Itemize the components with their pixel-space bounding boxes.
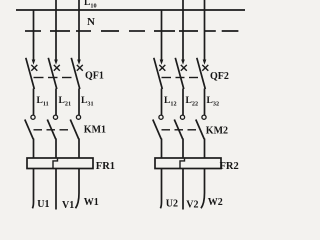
wire: FR2 to motor terminal W2 <box>201 169 205 209</box>
thermal overload relay FR2 (box with heater jog) <box>155 158 221 169</box>
svg-text:N: N <box>87 16 95 28</box>
svg-text:W1: W1 <box>84 197 99 208</box>
circuit breaker QF1 pole 3 (arrow, x contact, blade) <box>71 58 83 89</box>
wire: KM2 pole3 to FR2 <box>204 139 206 159</box>
QF2 linkage (dashed) <box>162 77 199 79</box>
bus N (neutral, dashed) <box>25 30 238 32</box>
circuit breaker QF2 pole 3 (arrow, x contact, blade) <box>197 58 209 89</box>
circuit breaker QF1 pole 2 (arrow, x contact, blade) <box>48 58 60 89</box>
svg-text:U1: U1 <box>37 199 49 210</box>
wire: L10 tap down to QF2 pole 1 <box>161 10 163 61</box>
KM2 linkage (dashed) <box>162 129 197 131</box>
svg-text:V1: V1 <box>62 200 74 210</box>
svg-text:FR2: FR2 <box>220 161 239 172</box>
wire: QF2 pole1 to KM2 pole1 <box>161 89 163 116</box>
contactor KM2 pole 1 (terminal circle, blade) <box>153 115 163 139</box>
wire: L10 tap down to QF1 pole 1 <box>33 10 35 61</box>
circuit breaker QF1 pole 1 (arrow, x contact, blade) <box>26 58 38 89</box>
wire: phase feed down to QF2 pole 3 <box>204 0 206 61</box>
wire: phase feed down to QF2 pole 2 <box>182 0 184 61</box>
KM1 linkage (dashed) <box>34 129 69 131</box>
circuit breaker QF2 pole 2 (arrow, x contact, blade) <box>175 58 187 89</box>
wire: QF1 pole1 to KM1 pole1 <box>33 89 35 116</box>
wire: phase feed down to QF1 pole 2 <box>55 0 57 61</box>
wire: QF1 pole3 to KM1 pole3 <box>78 89 80 116</box>
thermal overload relay FR1 (box with heater jog) <box>27 158 93 169</box>
wire: QF1 pole2 to KM1 pole2 <box>55 89 57 116</box>
svg-text:KM2: KM2 <box>206 125 228 136</box>
wire: FR1 to motor terminal W1 <box>76 169 80 209</box>
bus L10 <box>16 9 245 11</box>
svg-text:KM1: KM1 <box>84 124 106 135</box>
wire: KM2 pole2 to FR2 <box>182 139 184 159</box>
svg-text:W2: W2 <box>208 197 223 208</box>
wire: KM1 pole3 to FR1 <box>78 139 80 159</box>
circuit breaker QF2 pole 1 (arrow, x contact, blade) <box>154 58 166 89</box>
wire: FR1 to motor terminal U1 <box>32 169 33 209</box>
wire: FR1 to motor terminal V1 <box>55 169 57 210</box>
QF1 linkage (dashed) <box>34 77 72 79</box>
svg-text:U2: U2 <box>166 198 178 209</box>
contactor KM1 pole 3 (terminal circle, blade) <box>70 115 80 139</box>
contactor KM1 pole 2 (terminal circle, blade) <box>47 115 57 139</box>
wire: KM2 pole1 to FR2 <box>161 139 163 159</box>
wire: phase feed down to QF1 pole 3 <box>78 0 80 61</box>
svg-text:QF2: QF2 <box>210 71 229 82</box>
wire: FR2 to motor terminal U2 <box>160 169 161 209</box>
wire: KM1 pole2 to FR1 <box>55 139 57 159</box>
svg-text:FR1: FR1 <box>96 161 115 172</box>
wire: QF2 pole3 to KM2 pole3 <box>204 89 206 116</box>
svg-text:V2: V2 <box>186 199 198 210</box>
svg-text:QF1: QF1 <box>85 70 104 81</box>
wire: QF2 pole2 to KM2 pole2 <box>182 89 184 116</box>
wire: FR2 to motor terminal V2 <box>182 169 184 210</box>
contactor KM2 pole 3 (terminal circle, blade) <box>196 115 206 139</box>
contactor KM1 pole 1 (terminal circle, blade) <box>25 115 35 139</box>
contactor KM2 pole 2 (terminal circle, blade) <box>174 115 184 139</box>
wire: KM1 pole1 to FR1 <box>33 139 35 159</box>
